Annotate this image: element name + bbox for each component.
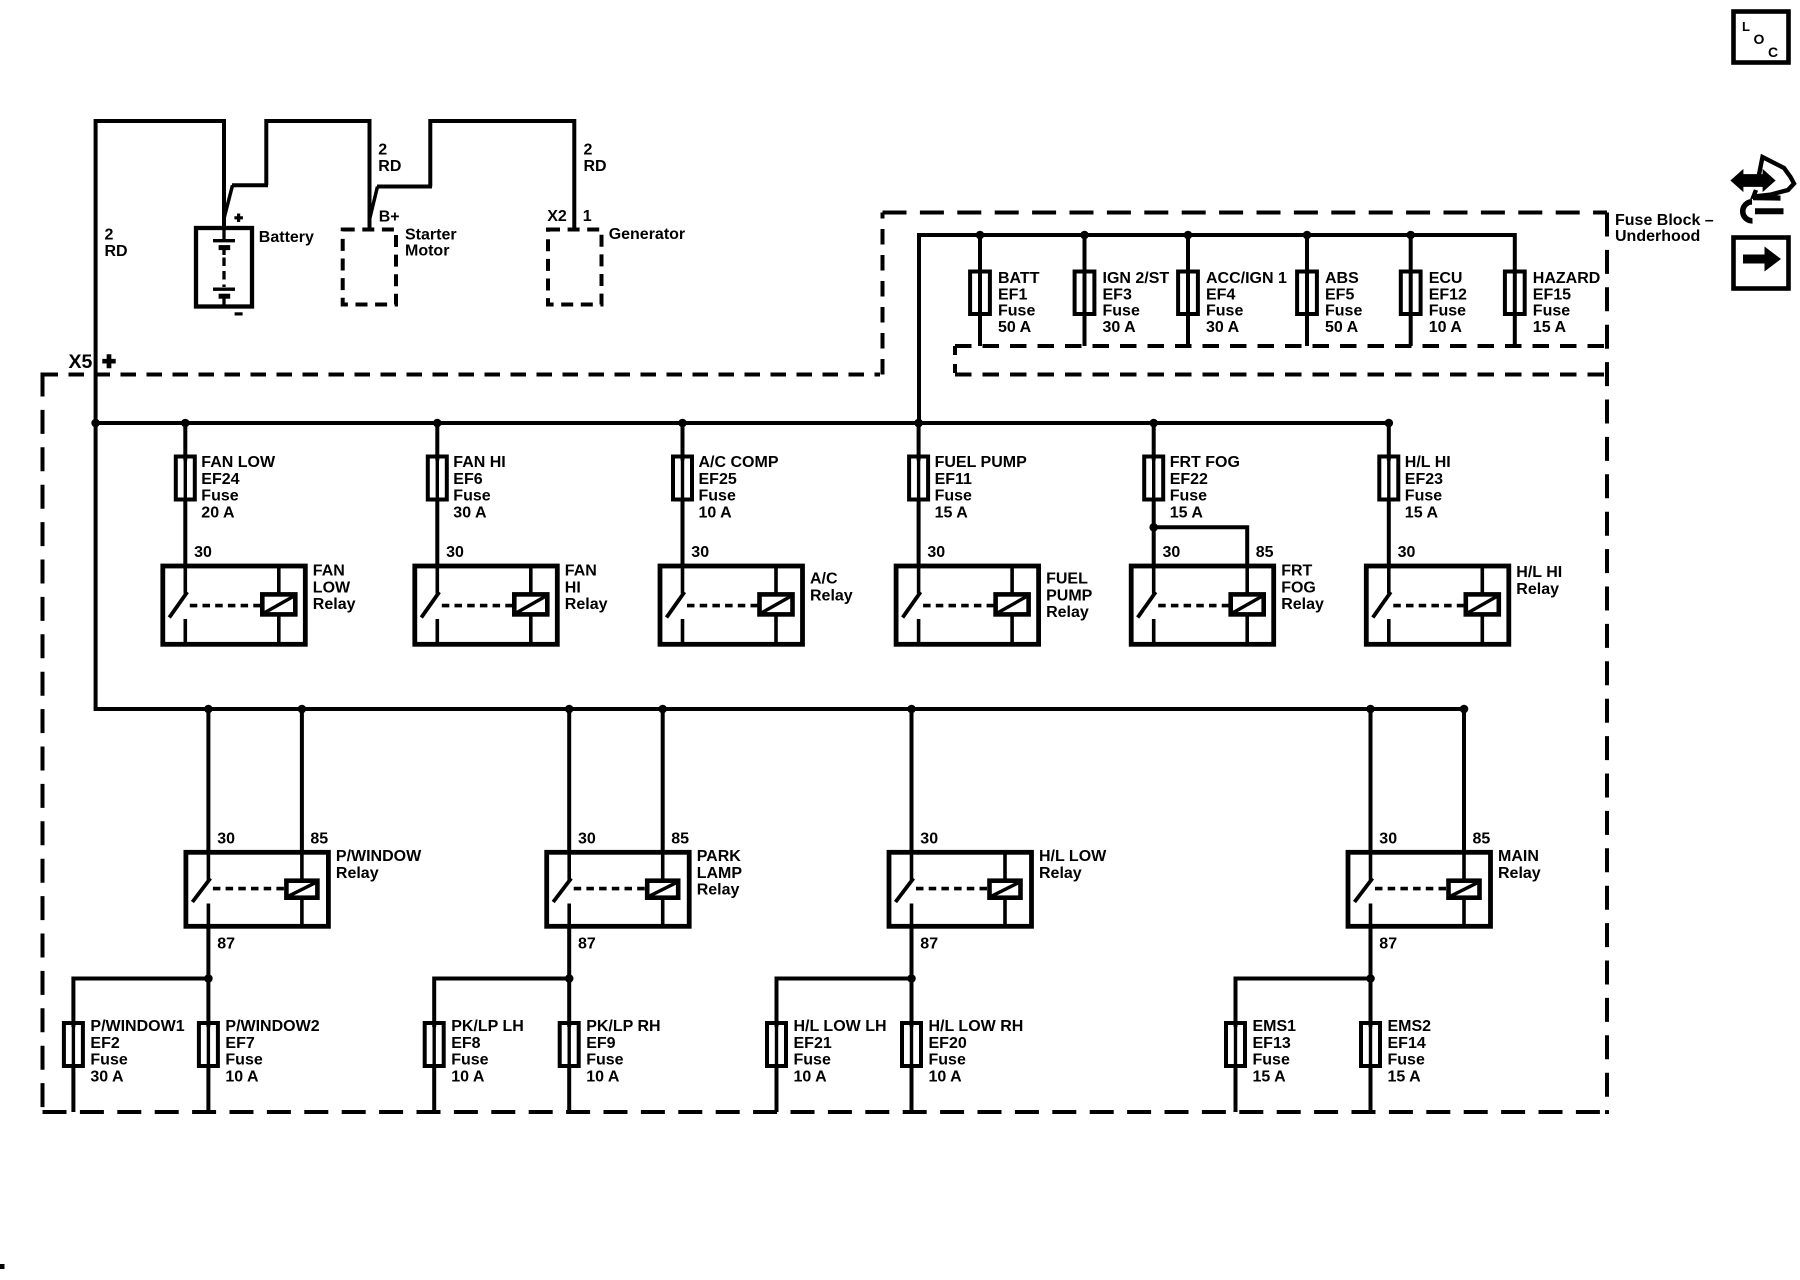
svg-text:30 A: 30 A (1206, 319, 1240, 336)
svg-text:EF5: EF5 (1325, 286, 1354, 303)
relay MAIN coil (1449, 881, 1480, 898)
wire relay MAIN pin 87 down to split (1369, 926, 1373, 978)
svg-text:30: 30 (927, 544, 945, 561)
svg-text:HAZARD: HAZARD (1533, 270, 1601, 287)
svg-text:50 A: 50 A (998, 319, 1032, 336)
svg-text:Relay: Relay (336, 865, 379, 882)
relay FUEL PUMP switch blade (903, 592, 921, 618)
wire bus2 drop to relay PARK LAMP pin 85 (661, 709, 665, 852)
battery - terminal label (235, 312, 243, 315)
wire fuse EF21 to border (775, 1064, 779, 1112)
svg-text:EF12: EF12 (1429, 286, 1467, 303)
svg-text:L: L (1742, 19, 1750, 34)
svg-text:EF15: EF15 (1533, 286, 1571, 303)
wire fuse EF25 to relay 30 pin (681, 498, 685, 567)
fuse block dashed border left edge rising to top (881, 213, 885, 375)
svg-text:15 A: 15 A (935, 504, 969, 521)
junction dot 87 split P/WINDOW (204, 974, 213, 983)
svg-text:IGN 2/ST: IGN 2/ST (1103, 270, 1170, 287)
svg-text:EMS1: EMS1 (1253, 1018, 1297, 1035)
fuse EF3 (IGN 2/ST) (1075, 272, 1095, 315)
wire 87 split branch to left fuse EF21 (777, 977, 912, 981)
fuse EF11 (FUEL PUMP) (909, 457, 928, 500)
relay P/WINDOW switch blade (192, 878, 210, 902)
svg-text:RD: RD (584, 158, 607, 175)
svg-text:85: 85 (671, 831, 689, 848)
relay FUEL PUMP pin 30 wire (917, 566, 921, 594)
svg-text:30: 30 (920, 831, 938, 848)
wire bus2 drop to relay MAIN pin 30 (1369, 709, 1373, 852)
fuse EF25 (A/C COMP) (673, 457, 692, 500)
wire drop to fuse EF13 (1234, 977, 1238, 1028)
relay P/WINDOW box (186, 852, 329, 926)
svg-text:87: 87 (578, 936, 596, 953)
fuse EF21 (H/L LOW LH) (767, 1023, 786, 1066)
svg-text:Relay: Relay (697, 882, 740, 899)
relay MAIN box (1348, 852, 1491, 926)
wire bus2 drop to relay P/WINDOW pin 85 (300, 709, 304, 852)
relay FRT FOG pin 87 stub (1152, 619, 1156, 644)
svg-text:30: 30 (217, 831, 235, 848)
relay FAN HI pin 30 wire (435, 566, 439, 594)
svg-text:2: 2 (105, 227, 114, 244)
wire fuse EF11 to relay 30 pin (917, 498, 921, 567)
relay P/WINDOW actuation dashed link (213, 887, 285, 891)
svg-text:Generator: Generator (609, 226, 685, 243)
relay H/L LOW switch blade (896, 878, 914, 902)
wire bus1 drop to fuse EF6 (435, 423, 439, 461)
svg-text:30 A: 30 A (1103, 319, 1137, 336)
svg-text:C: C (1768, 44, 1778, 60)
wire fuse EF8 to border (432, 1064, 436, 1112)
svg-text:Fuse: Fuse (699, 488, 736, 505)
relay PARK LAMP coil feed wires (661, 850, 665, 880)
generator dashed box (548, 230, 602, 305)
fuse block dashed border right edge (1605, 213, 1609, 1115)
wire fuse EF22 to relay 30 pin (1152, 498, 1156, 567)
svg-text:EF2: EF2 (90, 1035, 119, 1052)
junction dot 87 split H/L LOW (907, 974, 916, 983)
svg-text:Relay: Relay (1281, 596, 1324, 613)
relay H/L LOW coil feed wires (1003, 852, 1007, 880)
svg-text:Fuse: Fuse (453, 488, 490, 505)
svg-text:1: 1 (583, 208, 592, 225)
relay MAIN actuation dashed link (1375, 887, 1447, 891)
wire drop to fuse EF8 (432, 977, 436, 1028)
relay A/C COMP coil feed wires (774, 566, 778, 594)
relay FRT FOG coil feed wires (1245, 564, 1249, 594)
svg-text:EF14: EF14 (1388, 1035, 1426, 1052)
svg-text:FAN: FAN (313, 563, 345, 580)
wire FRT FOG 85 branch (1154, 527, 1248, 566)
svg-text:87: 87 (1379, 936, 1397, 953)
svg-text:Fuse: Fuse (1429, 303, 1466, 320)
svg-text:EF9: EF9 (586, 1035, 615, 1052)
svg-text:FAN LOW: FAN LOW (201, 454, 276, 471)
svg-text:50 A: 50 A (1325, 319, 1359, 336)
svg-text:Relay: Relay (810, 587, 853, 604)
svg-text:Fuse: Fuse (1170, 488, 1207, 505)
relay H/L HI pin 87 stub (1387, 619, 1391, 644)
wire 2 jog toward battery (232, 183, 268, 187)
wire bus1 drop to fuse EF11 (917, 423, 921, 461)
relay H/L LOW box (889, 852, 1032, 926)
relay FAN LOW switch blade (169, 592, 187, 618)
wire drop to fuse EF7 (206, 977, 210, 1028)
wire bus1 drop to fuse EF25 (681, 423, 685, 461)
relay FAN HI coil feed wires (529, 566, 533, 594)
relay FRT FOG box (1131, 566, 1274, 644)
svg-text:EF11: EF11 (935, 471, 972, 488)
relay FAN HI box (415, 566, 558, 644)
battery G1 box (196, 228, 252, 307)
junction dot FRT FOG 85 branch (1149, 523, 1158, 532)
svg-text:FAN: FAN (565, 563, 597, 580)
X5 + polarity mark (102, 354, 115, 368)
fuse EF24 (FAN LOW) (176, 457, 195, 500)
wire 3 right drop to generator X2-1 (572, 119, 576, 230)
svg-text:10 A: 10 A (794, 1068, 828, 1085)
wire bus1 drop to fuse EF23 (1387, 423, 1391, 461)
relay PARK LAMP pin 30 wire (567, 852, 571, 880)
wire fuse EF2 to border (71, 1064, 75, 1112)
svg-text:EF7: EF7 (225, 1035, 254, 1052)
fuse EF9 (PK/LP RH) (560, 1023, 579, 1066)
svg-text:2: 2 (584, 142, 593, 159)
junction dot bus1 at FRT FOG (1149, 419, 1158, 428)
wire relay H/L LOW pin 87 down to split (910, 926, 914, 978)
fuse EF14 (EMS2) (1361, 1023, 1380, 1066)
wire drop to fuse EF9 (567, 977, 571, 1028)
svg-text:H/L LOW LH: H/L LOW LH (794, 1018, 887, 1035)
fuse EF4 (ACC/IGN 1) (1178, 272, 1198, 315)
svg-text:P/WINDOW1: P/WINDOW1 (90, 1018, 184, 1035)
junction dot bus1 at FUEL PUMP (914, 419, 923, 428)
wire fuse EF23 to relay 30 pin (1387, 498, 1391, 567)
junction dot bus B+ at EF4 (1184, 231, 1193, 240)
wire feed for fuse EF1 (978, 233, 982, 346)
wire 2RD battery feed (top wire 1 + left main vertical) (96, 121, 224, 709)
relay A/C COMP pin 87 stub (681, 619, 685, 644)
svg-text:Fuse: Fuse (1388, 1052, 1425, 1069)
wire feed for fuse EF15 (1513, 233, 1517, 346)
svg-text:Relay: Relay (1498, 865, 1541, 882)
svg-text:Battery: Battery (259, 229, 314, 246)
relay FRT FOG coil (1231, 594, 1264, 614)
junction dot bus2 at MAIN 30 (1366, 705, 1375, 714)
svg-text:10 A: 10 A (929, 1068, 963, 1085)
svg-text:HI: HI (565, 579, 581, 596)
svg-text:LOW: LOW (313, 579, 351, 596)
relay A/C COMP switch blade (667, 592, 685, 618)
fuse EF8 (PK/LP LH) (425, 1023, 444, 1066)
svg-text:FRT: FRT (1281, 563, 1312, 580)
svg-text:H/L LOW RH: H/L LOW RH (929, 1018, 1024, 1035)
battery internal cells (222, 228, 225, 239)
junction dot bus1 fuse-block feed (914, 419, 923, 428)
relay H/L HI coil (1466, 594, 1499, 614)
svg-text:30 A: 30 A (90, 1068, 124, 1085)
svg-text:EF13: EF13 (1253, 1035, 1291, 1052)
fuse block inner dashed divider upper (955, 344, 1607, 348)
relay P/WINDOW coil feed wires (300, 850, 304, 880)
battery + terminal label (234, 214, 243, 223)
svg-text:B+: B+ (379, 209, 400, 226)
svg-text:15 A: 15 A (1388, 1068, 1422, 1085)
svg-text:20 A: 20 A (201, 504, 235, 521)
junction dot 87 split MAIN (1366, 974, 1375, 983)
relay H/L HI switch blade (1373, 592, 1391, 618)
wire fuse block feed down to main bus (917, 233, 921, 425)
wire bus2 drop to relay P/WINDOW pin 30 (206, 709, 210, 852)
svg-text:PUMP: PUMP (1046, 587, 1093, 604)
relay H/L HI coil feed wires (1481, 566, 1485, 594)
fuse EF13 (EMS1) (1226, 1023, 1245, 1066)
relay FAN HI switch blade (421, 592, 439, 618)
svg-text:EMS2: EMS2 (1388, 1018, 1432, 1035)
junction dot bus2 at MAIN 85 (1460, 705, 1469, 714)
svg-text:ACC/IGN 1: ACC/IGN 1 (1206, 270, 1287, 287)
junction dot bus2 at PARK LAMP 85 (658, 705, 667, 714)
svg-text:Fuse: Fuse (586, 1052, 623, 1069)
relay H/L LOW actuation dashed link (916, 887, 988, 891)
wire 87 split branch to left fuse EF13 (1236, 977, 1371, 981)
fuse EF1 (BATT) (970, 272, 990, 315)
fuse EF12 (ECU) (1401, 272, 1421, 315)
relay FAN HI pin 87 stub (435, 619, 439, 644)
svg-text:Fuse: Fuse (225, 1052, 262, 1069)
fuse EF2 (P/WINDOW1) (64, 1023, 83, 1066)
fuse EF7 (P/WINDOW2) (199, 1023, 218, 1066)
wire main bus 2 with MAIN relay 85 drop (94, 707, 1464, 711)
relay H/L LOW pin 87 stub (910, 904, 914, 927)
wire 3 slant splice into starter wire (370, 187, 378, 220)
svg-text:2: 2 (378, 142, 387, 159)
svg-text:EF4: EF4 (1206, 286, 1235, 303)
fuse EF6 (FAN HI) (428, 457, 447, 500)
junction dot bus B+ at EF3 (1080, 231, 1089, 240)
svg-text:10 A: 10 A (586, 1068, 620, 1085)
svg-text:Relay: Relay (565, 596, 608, 613)
svg-text:30: 30 (1398, 544, 1416, 561)
relay FAN LOW pin 87 stub (184, 619, 188, 644)
relay MAIN pin 87 stub (1369, 904, 1373, 927)
page corner mark (0, 1264, 5, 1269)
relay A/C COMP actuation dashed link (687, 604, 758, 608)
svg-text:EF20: EF20 (929, 1035, 967, 1052)
svg-text:30: 30 (194, 544, 212, 561)
LOC reference box icon (1734, 12, 1789, 63)
relay FUEL PUMP actuation dashed link (923, 604, 994, 608)
wire 2RD top wire 2 (battery to starter) (266, 119, 369, 123)
svg-text:BATT: BATT (998, 270, 1040, 287)
relay H/L LOW coil (990, 881, 1021, 898)
svg-text:MAIN: MAIN (1498, 848, 1539, 865)
svg-text:Relay: Relay (313, 596, 356, 613)
wire feed for fuse EF12 (1409, 233, 1413, 346)
junction dot bus1 at FAN LOW (181, 419, 190, 428)
svg-text:O: O (1754, 31, 1765, 47)
svg-text:A/C: A/C (810, 571, 838, 588)
svg-text:Starter: Starter (405, 227, 457, 244)
wire battery positive drop (222, 119, 226, 229)
relay PARK LAMP pin 87 stub (567, 904, 571, 927)
svg-text:10 A: 10 A (225, 1068, 259, 1085)
wire 2 left drop to jog (264, 119, 268, 185)
svg-text:RD: RD (378, 158, 401, 175)
wire drop to fuse EF20 (910, 977, 914, 1028)
svg-text:Fuse: Fuse (998, 303, 1035, 320)
svg-text:EF21: EF21 (794, 1035, 832, 1052)
junction dot bus2 at P/WINDOW 85 (298, 705, 307, 714)
svg-text:H/L LOW: H/L LOW (1039, 848, 1107, 865)
svg-text:Fuse: Fuse (1253, 1052, 1290, 1069)
svg-text:87: 87 (217, 936, 235, 953)
svg-text:EF1: EF1 (998, 286, 1027, 303)
relay PARK LAMP actuation dashed link (574, 887, 646, 891)
fuse EF22 (FRT FOG) (1144, 457, 1163, 500)
relay MAIN pin 30 wire (1369, 852, 1373, 880)
fuse block underhood outer dashed border left+top (43, 373, 881, 377)
wire 2 right drop to starter B+ (368, 119, 372, 230)
relay FAN HI coil (514, 594, 547, 614)
wire bus2 drop to relay H/L LOW pin 30 (910, 709, 914, 852)
wire fuse EF6 to relay 30 pin (435, 498, 439, 567)
svg-text:ECU: ECU (1429, 270, 1463, 287)
relay P/WINDOW coil (286, 881, 317, 898)
svg-text:EF6: EF6 (453, 471, 482, 488)
svg-text:Fuse: Fuse (794, 1052, 831, 1069)
svg-text:Fuse: Fuse (1533, 303, 1570, 320)
svg-text:ABS: ABS (1325, 270, 1359, 287)
relay PARK LAMP coil (647, 881, 678, 898)
svg-text:Fuse: Fuse (1405, 488, 1442, 505)
svg-text:FRT FOG: FRT FOG (1170, 454, 1240, 471)
relay A/C COMP coil (760, 594, 793, 614)
svg-text:Underhood: Underhood (1615, 228, 1700, 245)
svg-text:Fuse: Fuse (90, 1052, 127, 1069)
svg-text:X2: X2 (547, 208, 567, 225)
svg-text:15 A: 15 A (1170, 504, 1204, 521)
relay FAN LOW pin 30 wire (184, 566, 188, 594)
svg-text:FUEL: FUEL (1046, 571, 1088, 588)
forward arrow box icon (1734, 238, 1789, 289)
svg-text:15 A: 15 A (1533, 319, 1567, 336)
svg-text:Relay: Relay (1046, 604, 1089, 621)
relay P/WINDOW pin 30 wire (207, 852, 211, 880)
wire fuse EF14 to border (1369, 1064, 1373, 1112)
svg-text:Relay: Relay (1516, 581, 1559, 598)
svg-text:PK/LP RH: PK/LP RH (586, 1018, 660, 1035)
svg-text:EF22: EF22 (1170, 471, 1208, 488)
wire 87 split branch to left fuse EF2 (73, 977, 208, 981)
fuse EF15 (HAZARD) (1505, 272, 1525, 315)
svg-text:15 A: 15 A (1253, 1068, 1287, 1085)
svg-text:85: 85 (310, 831, 328, 848)
relay MAIN coil feed wires (1462, 850, 1466, 880)
junction dot bus1 at A/C COMP (678, 419, 687, 428)
wire fuse block bus B+ (919, 233, 1515, 237)
wire MAIN relay 85 drop (1462, 707, 1466, 852)
wire drop to fuse EF21 (775, 977, 779, 1028)
relay H/L LOW pin 30 wire (910, 852, 914, 880)
inner divider corner connector (953, 346, 957, 375)
relay PARK LAMP switch blade (553, 878, 571, 902)
svg-text:A/C COMP: A/C COMP (699, 454, 779, 471)
svg-text:Motor: Motor (405, 243, 449, 260)
relay A/C COMP pin 30 wire (681, 566, 685, 594)
relay FUEL PUMP coil feed wires (1010, 566, 1014, 594)
relay FAN LOW coil (262, 594, 295, 614)
svg-text:P/WINDOW2: P/WINDOW2 (225, 1018, 319, 1035)
wire fuse EF24 to relay 30 pin (183, 498, 187, 567)
svg-text:EF8: EF8 (451, 1035, 480, 1052)
svg-text:30: 30 (1163, 544, 1181, 561)
svg-text:EF24: EF24 (201, 471, 239, 488)
wire feed for fuse EF4 (1186, 233, 1190, 346)
svg-text:Fuse: Fuse (935, 488, 972, 505)
wire relay PARK LAMP pin 87 down to split (567, 926, 571, 978)
wire fuse EF20 to border (910, 1064, 914, 1112)
svg-text:P/WINDOW: P/WINDOW (336, 848, 422, 865)
relay FRT FOG pin 30 wire (1152, 566, 1156, 594)
svg-text:15 A: 15 A (1405, 504, 1439, 521)
relay FAN LOW actuation dashed link (190, 604, 261, 608)
svg-text:30: 30 (691, 544, 709, 561)
fuse block dashed border top edge (883, 211, 1608, 215)
wire 2RD top wire 3 (starter to generator) (430, 119, 574, 123)
relay FAN HI actuation dashed link (442, 604, 513, 608)
svg-text:30: 30 (578, 831, 596, 848)
svg-text:EF23: EF23 (1405, 471, 1443, 488)
svg-text:Fuse: Fuse (201, 488, 238, 505)
svg-text:Fuse: Fuse (1206, 303, 1243, 320)
relay FAN LOW box (163, 566, 305, 644)
relay H/L HI actuation dashed link (1393, 604, 1464, 608)
fuse EF23 (H/L HI) (1379, 457, 1398, 500)
relay H/L HI pin 30 wire (1387, 566, 1391, 594)
starter motor dashed box (343, 230, 396, 305)
wire bus1 drop to fuse EF22 (1152, 423, 1156, 461)
wire main bus 1 (94, 421, 1389, 425)
svg-text:LAMP: LAMP (697, 865, 743, 882)
relay FUEL PUMP coil (996, 594, 1029, 614)
svg-text:PARK: PARK (697, 848, 742, 865)
junction dot bus B+ at EF5 (1303, 231, 1312, 240)
junction dot bus2 at H/L LOW 30 (907, 705, 916, 714)
svg-text:RD: RD (105, 243, 128, 260)
wire feed for fuse EF3 (1083, 233, 1087, 346)
svg-text:Fuse Block –: Fuse Block – (1615, 212, 1714, 229)
svg-text:85: 85 (1473, 831, 1491, 848)
fuse EF5 (ABS) (1297, 272, 1317, 315)
wire bus1 drop to fuse EF24 (183, 423, 187, 461)
svg-text:H/L HI: H/L HI (1405, 454, 1451, 471)
junction dot 87 split PARK LAMP (565, 974, 574, 983)
svg-text:30 A: 30 A (453, 504, 487, 521)
svg-text:EF25: EF25 (699, 471, 737, 488)
outer dashed border bottom (43, 1110, 1608, 1114)
svg-text:FOG: FOG (1281, 579, 1316, 596)
svg-text:Fuse: Fuse (929, 1052, 966, 1069)
junction dot bus B+ at EF1 (976, 231, 985, 240)
svg-text:10 A: 10 A (451, 1068, 485, 1085)
svg-text:EF3: EF3 (1103, 286, 1132, 303)
junction dot bus1 left feed (91, 419, 100, 428)
relay FUEL PUMP pin 87 stub (917, 619, 921, 644)
wire 3 left drop to jog (428, 119, 432, 187)
wire fuse EF7 to border (206, 1064, 210, 1112)
